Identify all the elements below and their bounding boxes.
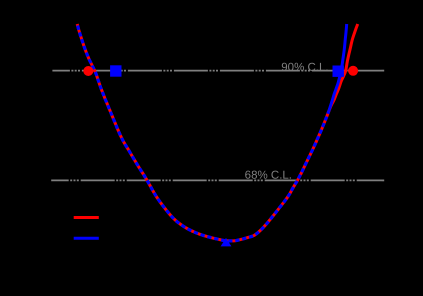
marker red circle left bbox=[83, 66, 93, 76]
marker blue square left bbox=[110, 65, 121, 76]
legend red sample bbox=[74, 216, 99, 219]
marker red circle right bbox=[348, 66, 358, 76]
curve blue dashed overlap bbox=[77, 24, 329, 241]
svg-text:90% C.L.: 90% C.L. bbox=[281, 62, 328, 74]
marker blue triangle bbox=[221, 238, 232, 247]
legend blue sample bbox=[74, 237, 99, 240]
curve blue tail solid bbox=[329, 24, 347, 111]
marker blue square right bbox=[333, 66, 344, 77]
svg-text:68% C.L.: 68% C.L. bbox=[245, 170, 292, 182]
90% C.L. line bbox=[52, 70, 384, 72]
68% C.L. line bbox=[51, 179, 384, 181]
curve red solid bbox=[77, 24, 358, 241]
